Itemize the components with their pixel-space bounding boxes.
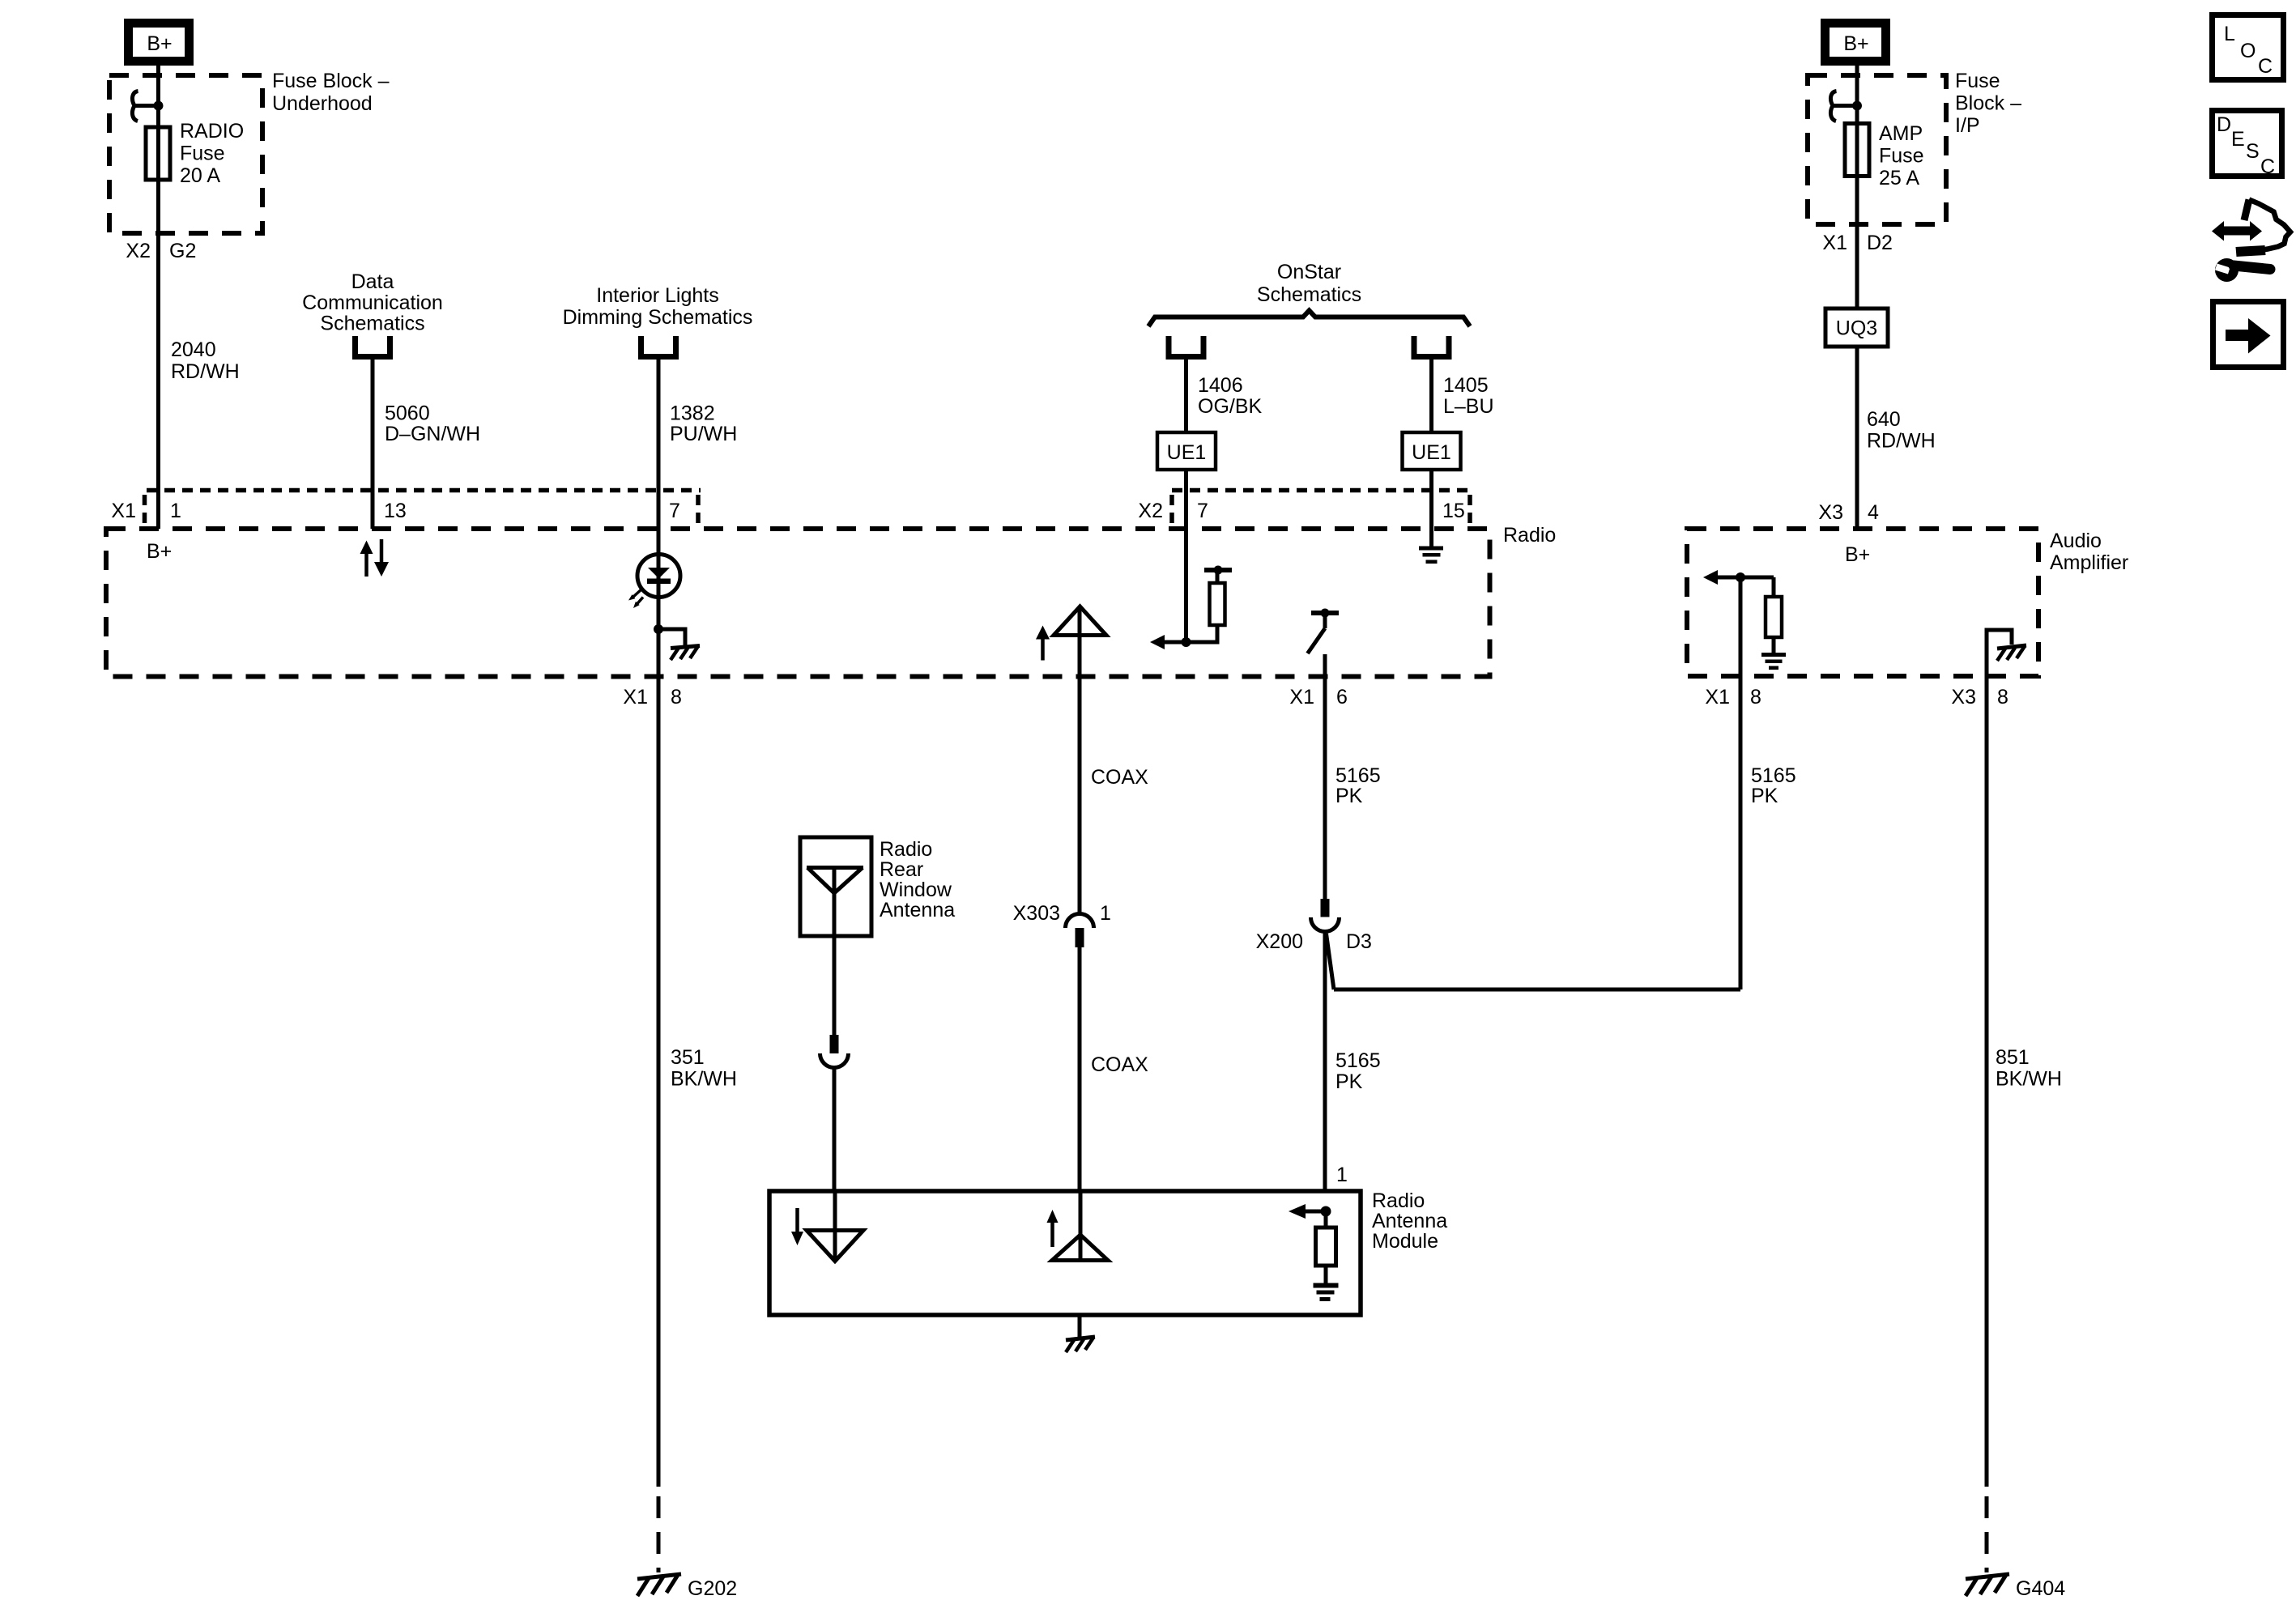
svg-text:B+: B+ bbox=[147, 540, 172, 563]
serial data up/down arrows inside radio bbox=[360, 539, 390, 577]
branch joint at X200 bbox=[1327, 934, 1335, 989]
amplifier case ground branch X3-8 bbox=[1987, 630, 2012, 1487]
wire COAX radio to X303 bbox=[1078, 677, 1082, 914]
fuse RADIO 20A bbox=[146, 127, 170, 180]
mute signal arrow and resistor inside radio bbox=[1150, 566, 1232, 650]
svg-text:Block –: Block – bbox=[1955, 92, 2021, 115]
svg-text:1: 1 bbox=[170, 500, 181, 522]
svg-text:640: 640 bbox=[1867, 408, 1901, 431]
svg-text:X2: X2 bbox=[126, 240, 151, 262]
power symbol B+ (left) bbox=[129, 23, 190, 62]
svg-text:COAX: COAX bbox=[1091, 766, 1148, 789]
svg-text:4: 4 bbox=[1868, 501, 1879, 524]
svg-text:Fuse: Fuse bbox=[1955, 70, 2000, 92]
svg-text:X200: X200 bbox=[1256, 930, 1303, 953]
label Audio Amplifier bbox=[2050, 530, 2128, 574]
signal arrow and resistor (module right) bbox=[1289, 1204, 1336, 1283]
svg-text:1382: 1382 bbox=[670, 402, 715, 425]
svg-text:BK/WH: BK/WH bbox=[671, 1068, 737, 1091]
svg-text:S: S bbox=[2246, 140, 2260, 163]
svg-text:D3: D3 bbox=[1346, 930, 1372, 953]
wire 5165 PK from amplifier X1-8 bbox=[1739, 577, 1743, 989]
LED indicator (radio dial lamp) bbox=[628, 554, 680, 629]
svg-text:RADIO: RADIO bbox=[180, 120, 244, 143]
wire radio X1-6 to X200 bbox=[1323, 654, 1327, 899]
svg-text:D–GN/WH: D–GN/WH bbox=[385, 423, 480, 445]
svg-text:1: 1 bbox=[1100, 902, 1111, 925]
svg-text:Schematics: Schematics bbox=[1257, 283, 1361, 306]
svg-text:D2: D2 bbox=[1867, 232, 1893, 254]
svg-text:I/P: I/P bbox=[1955, 114, 1980, 137]
wire X200 to module pin 1 bbox=[1323, 932, 1327, 1192]
svg-text:OnStar: OnStar bbox=[1277, 261, 1341, 283]
svg-text:X1: X1 bbox=[1289, 686, 1314, 709]
label OnStar Schematics bbox=[1257, 261, 1361, 306]
svg-text:AMP: AMP bbox=[1879, 122, 1923, 145]
antenna symbol (module middle) bbox=[1047, 1191, 1109, 1261]
svg-text:X3: X3 bbox=[1818, 501, 1843, 524]
svg-text:UQ3: UQ3 bbox=[1836, 317, 1877, 340]
wire 1406 OG/BK bbox=[1184, 360, 1188, 432]
wire 5060 D-GN/WH to pin 13 bbox=[371, 360, 375, 529]
svg-text:Window: Window bbox=[880, 879, 952, 901]
svg-text:PU/WH: PU/WH bbox=[670, 423, 737, 445]
service icon (hand with wrench) bbox=[2212, 200, 2290, 283]
svg-text:BK/WH: BK/WH bbox=[1996, 1068, 2062, 1091]
continue arrow icon bbox=[2213, 302, 2284, 368]
wire COAX X303 to module bbox=[1078, 947, 1082, 1191]
svg-text:7: 7 bbox=[1197, 500, 1208, 522]
svg-text:5060: 5060 bbox=[385, 402, 430, 425]
off-page bracket (OnStar left) bbox=[1166, 336, 1207, 360]
svg-text:G202: G202 bbox=[688, 1577, 737, 1600]
mute signal arrow and resistor inside amplifier bbox=[1703, 570, 1782, 653]
chassis ground G404 bbox=[1966, 1574, 2009, 1596]
svg-text:5165: 5165 bbox=[1335, 764, 1381, 787]
inline connector X200 D3 bbox=[1311, 899, 1340, 932]
earth ground (radio pin 15) bbox=[1419, 547, 1443, 564]
label Fuse Block - Underhood bbox=[272, 70, 390, 115]
svg-text:Amplifier: Amplifier bbox=[2050, 551, 2128, 574]
wire antenna to inline connector bbox=[833, 936, 837, 1035]
fuse AMP 25A bbox=[1845, 124, 1869, 177]
svg-text:C: C bbox=[2260, 155, 2275, 178]
svg-text:8: 8 bbox=[1750, 686, 1761, 709]
svg-text:13: 13 bbox=[384, 500, 407, 522]
svg-text:Module: Module bbox=[1372, 1230, 1438, 1253]
svg-text:RD/WH: RD/WH bbox=[1867, 430, 1936, 453]
chassis ground G202 bbox=[637, 1574, 681, 1596]
DESC reference icon bbox=[2213, 111, 2282, 179]
svg-text:X1: X1 bbox=[1705, 686, 1730, 709]
inline coax connector (antenna lead) bbox=[820, 1035, 849, 1068]
label Radio Rear Window Antenna bbox=[880, 838, 955, 921]
audio amplifier dashed box bbox=[1687, 529, 2038, 676]
svg-text:25 A: 25 A bbox=[1879, 167, 1919, 189]
svg-text:PK: PK bbox=[1751, 785, 1778, 807]
svg-text:COAX: COAX bbox=[1091, 1053, 1148, 1076]
svg-text:Radio: Radio bbox=[880, 838, 932, 861]
label Fuse Block - I/P bbox=[1955, 70, 2021, 137]
svg-text:Interior Lights: Interior Lights bbox=[596, 284, 718, 307]
wire 1405 L-BU bbox=[1429, 360, 1433, 432]
svg-text:1: 1 bbox=[1336, 1164, 1348, 1186]
radio rear window antenna box bbox=[800, 837, 871, 936]
fuse block underhood dashed box bbox=[109, 75, 262, 233]
fuse block I/P dashed box bbox=[1808, 75, 1946, 224]
chassis ground (module bottom) bbox=[1066, 1337, 1095, 1352]
svg-text:851: 851 bbox=[1996, 1046, 2030, 1069]
wire connector to module bbox=[833, 1068, 837, 1192]
label Interior Lights Dimming Schematics bbox=[563, 284, 753, 329]
option box UE1 (left) bbox=[1157, 432, 1216, 470]
svg-text:Antenna: Antenna bbox=[880, 899, 955, 921]
svg-text:X1: X1 bbox=[623, 686, 648, 709]
junction node at LED ground bbox=[654, 624, 663, 634]
wire branch to chassis ground inside radio bbox=[658, 629, 685, 645]
connector X1 dotted line (radio left) bbox=[145, 491, 701, 526]
svg-text:Communication: Communication bbox=[302, 291, 443, 314]
off-page bracket (interior lights dimming) bbox=[638, 336, 679, 360]
svg-text:OG/BK: OG/BK bbox=[1198, 395, 1263, 418]
svg-text:1406: 1406 bbox=[1198, 374, 1243, 397]
brace over OnStar drops bbox=[1148, 311, 1470, 327]
radio antenna module box bbox=[769, 1191, 1361, 1315]
svg-text:B+: B+ bbox=[147, 32, 172, 55]
svg-text:X3: X3 bbox=[1951, 686, 1976, 709]
wire 1382 PU/WH to pin 7 bbox=[657, 360, 661, 554]
svg-text:Radio: Radio bbox=[1372, 1189, 1425, 1212]
receive antenna symbol (module left) bbox=[791, 1191, 863, 1262]
label Radio Antenna Module bbox=[1372, 1189, 1447, 1253]
svg-text:Data: Data bbox=[351, 270, 394, 293]
chassis ground (radio interior) bbox=[671, 646, 700, 661]
wire B+ feed to radio pin 1 (2040 RD/WH) bbox=[156, 66, 160, 529]
svg-text:15: 15 bbox=[1442, 500, 1465, 522]
module case ground wire bbox=[1078, 1315, 1082, 1338]
svg-text:Dimming Schematics: Dimming Schematics bbox=[563, 306, 753, 329]
svg-text:Antenna: Antenna bbox=[1372, 1210, 1447, 1232]
svg-text:L: L bbox=[2224, 23, 2235, 45]
svg-text:Audio: Audio bbox=[2050, 530, 2102, 552]
connector X2 dotted line (OnStar pins) bbox=[1172, 491, 1470, 526]
label Data Communication Schematics bbox=[302, 270, 443, 335]
earth ground (module resistor) bbox=[1314, 1283, 1339, 1302]
svg-text:5165: 5165 bbox=[1335, 1049, 1381, 1072]
option box UQ3 bbox=[1825, 309, 1888, 347]
svg-text:Fuse: Fuse bbox=[180, 143, 225, 165]
off-page bracket (OnStar right) bbox=[1412, 336, 1452, 360]
svg-text:G404: G404 bbox=[2016, 1577, 2065, 1600]
radio dashed component box bbox=[106, 529, 1490, 677]
svg-text:X1: X1 bbox=[111, 500, 136, 522]
svg-text:G2: G2 bbox=[169, 240, 196, 262]
svg-text:8: 8 bbox=[671, 686, 682, 709]
svg-text:7: 7 bbox=[669, 500, 680, 522]
svg-text:1405: 1405 bbox=[1443, 374, 1489, 397]
antenna symbol inside radio bbox=[1036, 606, 1106, 677]
svg-text:E: E bbox=[2231, 128, 2245, 151]
wire B+ feed to UQ3 (640 RD/WH) bbox=[1855, 66, 1859, 309]
svg-text:C: C bbox=[2258, 55, 2273, 78]
fuse pull hook symbol (left) bbox=[132, 91, 163, 121]
wire break to G404 bbox=[1985, 1496, 1989, 1572]
wire 351 BK/WH from radio X1-8 bbox=[657, 629, 661, 1487]
svg-text:B+: B+ bbox=[1845, 543, 1870, 566]
svg-text:UE1: UE1 bbox=[1167, 441, 1207, 464]
svg-text:Schematics: Schematics bbox=[320, 313, 424, 335]
svg-text:Rear: Rear bbox=[880, 858, 923, 881]
svg-text:5165: 5165 bbox=[1751, 764, 1796, 787]
svg-text:351: 351 bbox=[671, 1046, 705, 1069]
power symbol B+ (right) bbox=[1825, 23, 1886, 62]
switch symbol inside radio (antenna control X1-6) bbox=[1308, 609, 1340, 654]
svg-text:8: 8 bbox=[1997, 686, 2008, 709]
svg-text:20 A: 20 A bbox=[180, 164, 220, 187]
wire UE1 to radio pin 15 bbox=[1429, 470, 1433, 547]
fuse pull hook symbol (right) bbox=[1830, 91, 1862, 121]
svg-text:D: D bbox=[2217, 113, 2231, 136]
svg-text:2040: 2040 bbox=[171, 338, 216, 361]
wire 5165 PK from amplifier to X200 bbox=[1334, 988, 1740, 992]
svg-text:L–BU: L–BU bbox=[1443, 395, 1494, 418]
svg-text:X303: X303 bbox=[1013, 902, 1060, 925]
chassis ground (amplifier interior) bbox=[1997, 645, 2026, 661]
svg-text:PK: PK bbox=[1335, 785, 1363, 807]
wire UE1 to radio pin X2-7 bbox=[1184, 470, 1188, 642]
svg-text:B+: B+ bbox=[1843, 32, 1868, 55]
svg-text:Radio: Radio bbox=[1503, 524, 1556, 547]
LOC reference icon bbox=[2213, 15, 2284, 80]
svg-text:RD/WH: RD/WH bbox=[171, 360, 240, 383]
svg-text:Fuse Block –: Fuse Block – bbox=[272, 70, 390, 92]
svg-text:X1: X1 bbox=[1822, 232, 1847, 254]
svg-text:O: O bbox=[2240, 40, 2256, 62]
svg-text:PK: PK bbox=[1335, 1070, 1363, 1093]
inline coax connector X303 bbox=[1066, 914, 1094, 948]
option box UE1 (right) bbox=[1403, 432, 1461, 470]
svg-text:Fuse: Fuse bbox=[1879, 145, 1924, 168]
svg-text:UE1: UE1 bbox=[1412, 441, 1451, 464]
svg-text:X2: X2 bbox=[1138, 500, 1163, 522]
svg-text:Underhood: Underhood bbox=[272, 92, 373, 115]
off-page bracket (data communication) bbox=[352, 336, 393, 360]
svg-text:6: 6 bbox=[1336, 686, 1348, 709]
earth ground (amplifier resistor) bbox=[1761, 653, 1786, 670]
